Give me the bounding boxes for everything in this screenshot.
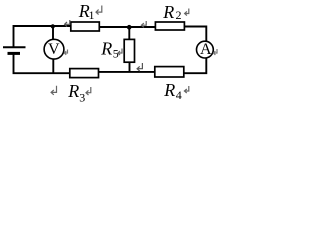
resistor R1 [71, 22, 100, 31]
svg-text:R: R [162, 2, 174, 22]
svg-text:1: 1 [89, 8, 95, 22]
svg-text:4: 4 [176, 88, 182, 102]
label R1 [78, 1, 95, 22]
return mark after label R3 [86, 87, 91, 95]
wire voltmeter branch upper [52, 27, 54, 40]
resistor R5 [124, 39, 134, 62]
svg-text:3: 3 [79, 90, 85, 104]
resistor R3 [70, 69, 99, 78]
resistor R2 [155, 22, 184, 30]
svg-text:V: V [48, 41, 60, 58]
junction node R5 tap [127, 25, 132, 30]
wire bottom right ammeter to R4 [184, 58, 207, 73]
svg-text:A: A [200, 41, 212, 58]
wire left-vertical lower + bottom-left segment to R3 [14, 53, 70, 73]
wire top middle R1 to R2 [99, 26, 155, 28]
battery short plate [8, 52, 21, 55]
label R4 [163, 80, 182, 102]
return mark right of ammeter [213, 49, 217, 55]
return mark after label R4 [184, 86, 188, 93]
return mark after label R1 [96, 6, 102, 15]
wire left-vertical upper + top-left segment to R1 [14, 26, 71, 47]
return mark after label R5 [118, 49, 122, 56]
return mark at R1 left node [65, 20, 70, 27]
ammeter A circle [197, 41, 214, 58]
return mark before label R3 [51, 86, 56, 95]
wire R5 branch upper [128, 27, 130, 39]
return mark before R2 node [141, 21, 146, 27]
voltmeter V circle [44, 39, 64, 59]
wire voltmeter branch lower [52, 59, 54, 74]
svg-text:R: R [100, 38, 112, 58]
return mark after label R2 [185, 9, 189, 16]
wire bottom middle R4 to R3 [98, 71, 155, 73]
battery long plate [3, 46, 26, 48]
wire top right R2 to ammeter [184, 27, 206, 42]
label R2 [162, 2, 181, 22]
svg-text:2: 2 [176, 8, 182, 22]
label R3 [67, 81, 85, 104]
svg-text:R: R [163, 80, 175, 100]
return mark right of voltmeter [64, 50, 67, 55]
resistor R4 [155, 67, 184, 77]
wire R5 branch lower [129, 62, 131, 72]
label R5 [100, 38, 119, 60]
junction node voltmeter tap [51, 24, 55, 28]
return mark at R5 bottom node [137, 63, 142, 71]
svg-text:R: R [67, 81, 79, 101]
